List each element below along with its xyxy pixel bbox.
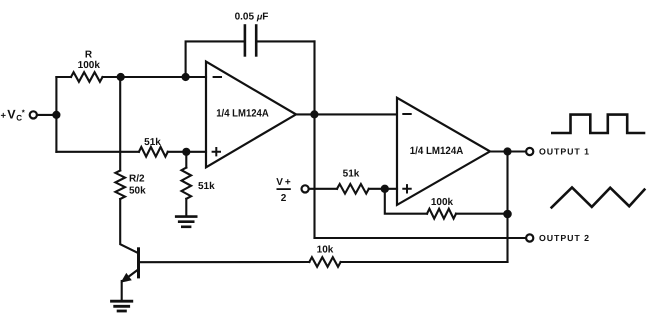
wire output vertical down to OUTPUT2 row [313,41,315,238]
node B (R / R2 junction) [117,73,125,81]
node C (minus input / cap junction) [182,73,190,81]
wire U1 output to U2 minus [296,113,397,115]
wire resistor R to minus input [103,76,207,78]
svg-text:2: 2 [281,193,287,204]
wire OUTPUT2 row [315,237,527,239]
svg-text:10k: 10k [317,245,334,256]
terminal OUTPUT 1 [526,148,533,155]
svg-text:*: * [22,108,26,117]
wire capacitor to output vertical [256,40,314,42]
svg-text:100k: 100k [78,60,101,71]
wire left vertical [55,77,57,152]
svg-text:+: + [1,110,7,121]
wire 51k to plus input [168,151,206,153]
svg-text:51k: 51k [343,169,360,180]
op-amp U2 [397,98,490,205]
svg-text:1/4 LM124A: 1/4 LM124A [410,145,464,157]
plus sign U1 [213,148,220,155]
wire node C up to capacitor [186,41,245,77]
terminal +VC [30,111,37,118]
svg-text:0.05 μF: 0.05 μF [235,12,269,23]
wire 100k to node H [456,213,508,215]
wire R/2 to transistor base [120,199,138,253]
svg-text:1/4 LM124A: 1/4 LM124A [216,108,269,120]
wire terminal to node [37,114,56,116]
node E (U1 output) [310,110,318,118]
resistor 51k (U2 plus) [337,184,369,194]
square wave symbol [552,115,644,133]
resistor 100k (feedback) [427,209,456,219]
wire 51k to ground [185,199,187,216]
fraction bar V+/2 [277,188,291,190]
node D (plus input junction) [182,148,190,156]
wire U2 output [490,150,526,152]
wire node G down to bottom row [506,152,508,263]
resistor R 100k [71,72,103,82]
resistor R/2 50k [115,171,125,200]
plus sign U2 [403,185,410,192]
wire top row to resistor R [56,76,71,78]
minus sign U2 [403,113,410,115]
resistor 10k [309,257,340,267]
minus sign U1 [214,76,221,78]
resistor 51k (to ground) [182,168,192,199]
svg-text:50k: 50k [129,186,146,197]
wire node B down to R/2 [119,77,121,171]
svg-text:OUTPUT 1: OUTPUT 1 [539,147,589,157]
node G (U2 output) [503,147,511,155]
triangle wave symbol [552,187,645,207]
svg-text:OUTPUT 2: OUTPUT 2 [539,233,589,243]
wire node D down [185,152,187,168]
svg-text:V: V [7,108,16,122]
wire 10k to node H vertical [341,261,508,263]
wire node F down to 100k [385,189,427,214]
wire bottom-left row [56,151,138,153]
svg-text:V +: V + [276,177,291,188]
svg-text:R: R [85,50,93,61]
wire collector row to 10k [139,261,310,263]
transistor Q1 [121,249,139,300]
capacitor C1 0.05uF [245,26,256,56]
node F (U2 plus junction) [381,185,389,193]
terminal V+/2 [302,185,309,192]
resistor 51k (plus input series) [139,147,168,157]
node H (100k right junction) [503,210,512,219]
wire 51k to U2 plus [369,188,397,190]
ground (51k) [176,217,196,227]
svg-text:R/2: R/2 [129,174,145,185]
op-amp U1 [206,62,296,168]
ground (Q1 emitter) [112,301,132,311]
svg-text:51k: 51k [198,181,215,192]
node A [52,111,60,119]
svg-text:100k: 100k [431,197,454,208]
wire V+/2 to 51k [309,188,337,190]
svg-text:51k: 51k [144,137,161,148]
terminal OUTPUT 2 [526,234,533,241]
